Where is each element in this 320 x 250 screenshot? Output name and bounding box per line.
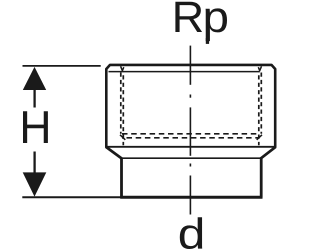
internal thread, right dashed pair [259,72,262,146]
dimension arrow down [23,172,47,196]
dimension line lower stem [33,152,35,174]
extension line top (H dimension) [23,65,101,67]
centerline (vertical dash-dot axis) [189,46,191,215]
fitting body outline (upper socket) [106,65,275,148]
taper right diagonal [261,147,276,159]
dimension line upper stem [33,90,35,108]
spigot right edge [260,158,263,198]
dimension arrow up [23,67,46,90]
label Rp (thread size) [175,2,202,32]
label H (height dimension) [23,111,48,143]
internal thread, bottom dashed pair [122,134,259,138]
spigot (lower cylinder) left edge [120,158,123,198]
taper left diagonal [106,147,122,159]
thread runout tick bottom-right [257,135,262,140]
label d (outlet diameter) [180,217,202,249]
thread runout tick top-right [258,66,261,71]
extension / bottom edge line (H dimension, lower) [22,196,121,198]
shoulder line (base of socket) [105,146,276,148]
thread entry chamfer line (thin, below top edge) [109,71,260,73]
internal thread, left dashed pair [121,72,124,146]
taper bottom line [122,157,261,159]
thread runout tick top-left [121,66,124,71]
label Rp descender stem extension [206,38,209,44]
spigot bottom edge [120,196,262,199]
thread runout tick bottom-left [120,135,125,140]
